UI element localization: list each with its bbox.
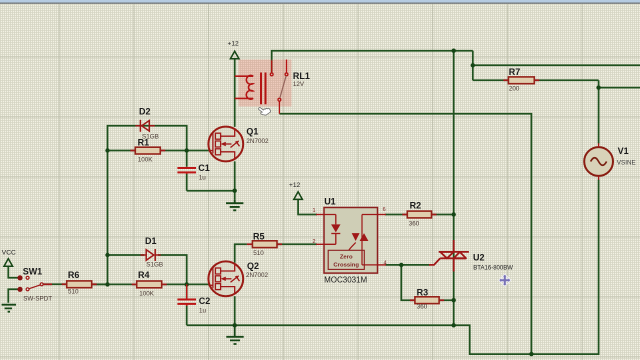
window top edge [0, 0, 640, 3]
svg-text:100K: 100K [138, 157, 154, 164]
transistor U2 triac BTA16-800BW [429, 240, 469, 272]
svg-text:R6: R6 [68, 270, 80, 280]
svg-text:6: 6 [383, 207, 386, 213]
svg-text:1u: 1u [199, 175, 207, 182]
diode D1 [141, 249, 161, 261]
wire to right edge lower [599, 87, 640, 89]
diode D2 [135, 120, 154, 132]
wire R6 to R4 junction [92, 283, 108, 285]
svg-text:R5: R5 [253, 231, 265, 241]
junction lower right-edge wire [596, 85, 600, 89]
svg-text:V1: V1 [618, 146, 629, 156]
power +12 (top, node +12) [230, 51, 239, 59]
wire D2 branch top [108, 126, 187, 151]
wire Q1 gate [187, 150, 210, 152]
wire D1 row [108, 255, 187, 284]
U1 internal LED [324, 215, 340, 245]
capacitor C2 [177, 299, 196, 305]
svg-text:R3: R3 [417, 288, 429, 298]
svg-text:+12: +12 [289, 182, 301, 189]
svg-text:12V: 12V [293, 81, 305, 88]
resistor R1 [135, 147, 160, 154]
svg-text:C1: C1 [198, 163, 210, 173]
svg-text:R4: R4 [138, 270, 150, 280]
wire right vertical rail [453, 51, 455, 326]
wire relay contact to top rail [272, 51, 473, 74]
relay RL1 core [261, 73, 266, 105]
wire to right edge upper [473, 64, 640, 66]
wire top-right branch down [472, 51, 474, 81]
resistor R3 [415, 297, 439, 304]
junction Q1 source/C1/ground [233, 189, 237, 193]
wire V1 bottom loop [454, 180, 599, 355]
svg-text:D1: D1 [145, 236, 157, 246]
junction upper right-edge wire [471, 63, 475, 67]
ground (below Q1) [226, 200, 243, 211]
junction Q2 source/ground rail [233, 323, 237, 327]
wire +12 to U1 pin1 [298, 199, 317, 214]
relay RL1 coil [235, 75, 254, 99]
voltage source V1 VSINE [584, 143, 613, 180]
junction relay wire/bottom return [529, 352, 533, 356]
wire Q1 source to ground junction [234, 161, 236, 200]
svg-text:510: 510 [68, 289, 79, 296]
svg-text:D2: D2 [139, 107, 151, 117]
svg-text:360: 360 [409, 220, 420, 227]
transistor Q2 [208, 261, 243, 296]
component pin stubs (red lead segments) [43, 80, 539, 300]
wire R3 branch [401, 265, 453, 300]
wire U1 pin4 to triac gate [386, 264, 430, 266]
blue move cursor [499, 274, 511, 286]
svg-text:1: 1 [313, 208, 316, 214]
svg-text:R7: R7 [509, 67, 521, 77]
resistor R2 [407, 211, 431, 218]
power VCC arrow [4, 259, 13, 267]
svg-text:2N7002: 2N7002 [246, 138, 269, 145]
wire relay NO contact down right [279, 114, 531, 354]
wire switch throw to ground [8, 289, 18, 303]
U1 zero crossing box [328, 250, 364, 269]
ground (switch) [2, 305, 16, 312]
power +12 (U1 side, node +12) [294, 192, 303, 200]
wire C1 top stem [186, 151, 188, 191]
wire switch common to R6 [43, 283, 66, 285]
resistor R5 [252, 241, 277, 248]
svg-text:VSINE: VSINE [617, 159, 636, 166]
svg-text:1u: 1u [199, 308, 207, 315]
relay RL1 contact pins [270, 60, 288, 114]
svg-text:Q1: Q1 [246, 127, 258, 137]
ground (below Q2) [226, 325, 243, 344]
junction U1 pin4/R3 [399, 263, 403, 267]
resistor R4 [137, 281, 162, 288]
svg-text:Crossing: Crossing [333, 262, 359, 268]
mouse hand cursor [258, 103, 272, 117]
wire R1 leads [108, 150, 187, 152]
wire C2 stem [186, 284, 188, 325]
svg-text:MOC3031M: MOC3031M [324, 276, 367, 285]
svg-text:S1GB: S1GB [146, 261, 163, 268]
svg-text:4: 4 [384, 261, 387, 267]
wire R4 row and Q2 gate [92, 283, 210, 285]
svg-text:510: 510 [253, 250, 264, 257]
U1 pin 6 lead [378, 214, 387, 216]
svg-text:U2: U2 [473, 253, 485, 263]
svg-text:Zero: Zero [340, 254, 353, 260]
svg-text:360: 360 [417, 303, 428, 310]
junction R4 left [105, 282, 109, 286]
svg-text:R1: R1 [138, 137, 150, 147]
junction D2/R1 left [105, 148, 109, 152]
wire bottom ground rail [187, 324, 454, 326]
svg-text:2: 2 [313, 239, 316, 245]
wire R2 to rail [432, 214, 454, 216]
svg-text:2N7002: 2N7002 [246, 272, 269, 279]
relay RL1 selection highlight [239, 60, 292, 107]
svg-text:+12: +12 [228, 41, 240, 48]
wire R7 corner to V1 [598, 80, 600, 143]
svg-text:SW-SPDT: SW-SPDT [23, 296, 52, 303]
svg-text:VCC: VCC [2, 249, 16, 256]
junction R2/rail [452, 212, 456, 216]
svg-text:SW1: SW1 [23, 266, 43, 276]
U1 pin 4 lead [378, 264, 387, 266]
resistor R6 [67, 281, 92, 288]
wire R7 row [473, 79, 599, 81]
svg-text:U1: U1 [324, 197, 336, 207]
svg-text:200: 200 [509, 86, 520, 93]
svg-text:R2: R2 [410, 201, 422, 211]
wire R5 to U1 pin2 [277, 243, 317, 245]
junction top rail to vertical rail [452, 49, 456, 53]
transistor Q1 [208, 127, 243, 162]
op-amp U1 optocoupler MOC3031M body [324, 208, 378, 274]
resistor R7 [508, 77, 534, 84]
svg-text:BTA16-800BW: BTA16-800BW [473, 265, 513, 271]
wire left vertical R1-R4 [107, 151, 109, 285]
wire U1 pin6 to R2 [385, 214, 407, 216]
wire VCC to switch [8, 266, 18, 278]
junction D1 left [105, 253, 109, 257]
U1 pin 2 lead [316, 243, 324, 245]
wire +12 rail down to Q1 drain [234, 59, 236, 127]
capacitor C1 [177, 167, 196, 173]
junction R1/C1/gate [185, 148, 189, 152]
junction R4/C2/gate [185, 282, 189, 286]
junction rail/bottom rail [452, 323, 456, 327]
wire C1 bottom to Q1 source junction [187, 190, 235, 192]
wire Q2 drain to R5 [235, 244, 247, 263]
switch SW1 SPDT [17, 275, 43, 292]
svg-text:100K: 100K [139, 291, 155, 298]
junction R3/rail [452, 298, 456, 302]
U1 pin 1 lead [316, 214, 324, 216]
relay RL1 contact arm [280, 76, 286, 98]
wire Q2 source [234, 296, 236, 325]
svg-text:C2: C2 [199, 296, 211, 306]
svg-text:Q2: Q2 [247, 261, 259, 271]
svg-text:RL1: RL1 [293, 71, 310, 81]
U1 internal triac [349, 215, 378, 265]
